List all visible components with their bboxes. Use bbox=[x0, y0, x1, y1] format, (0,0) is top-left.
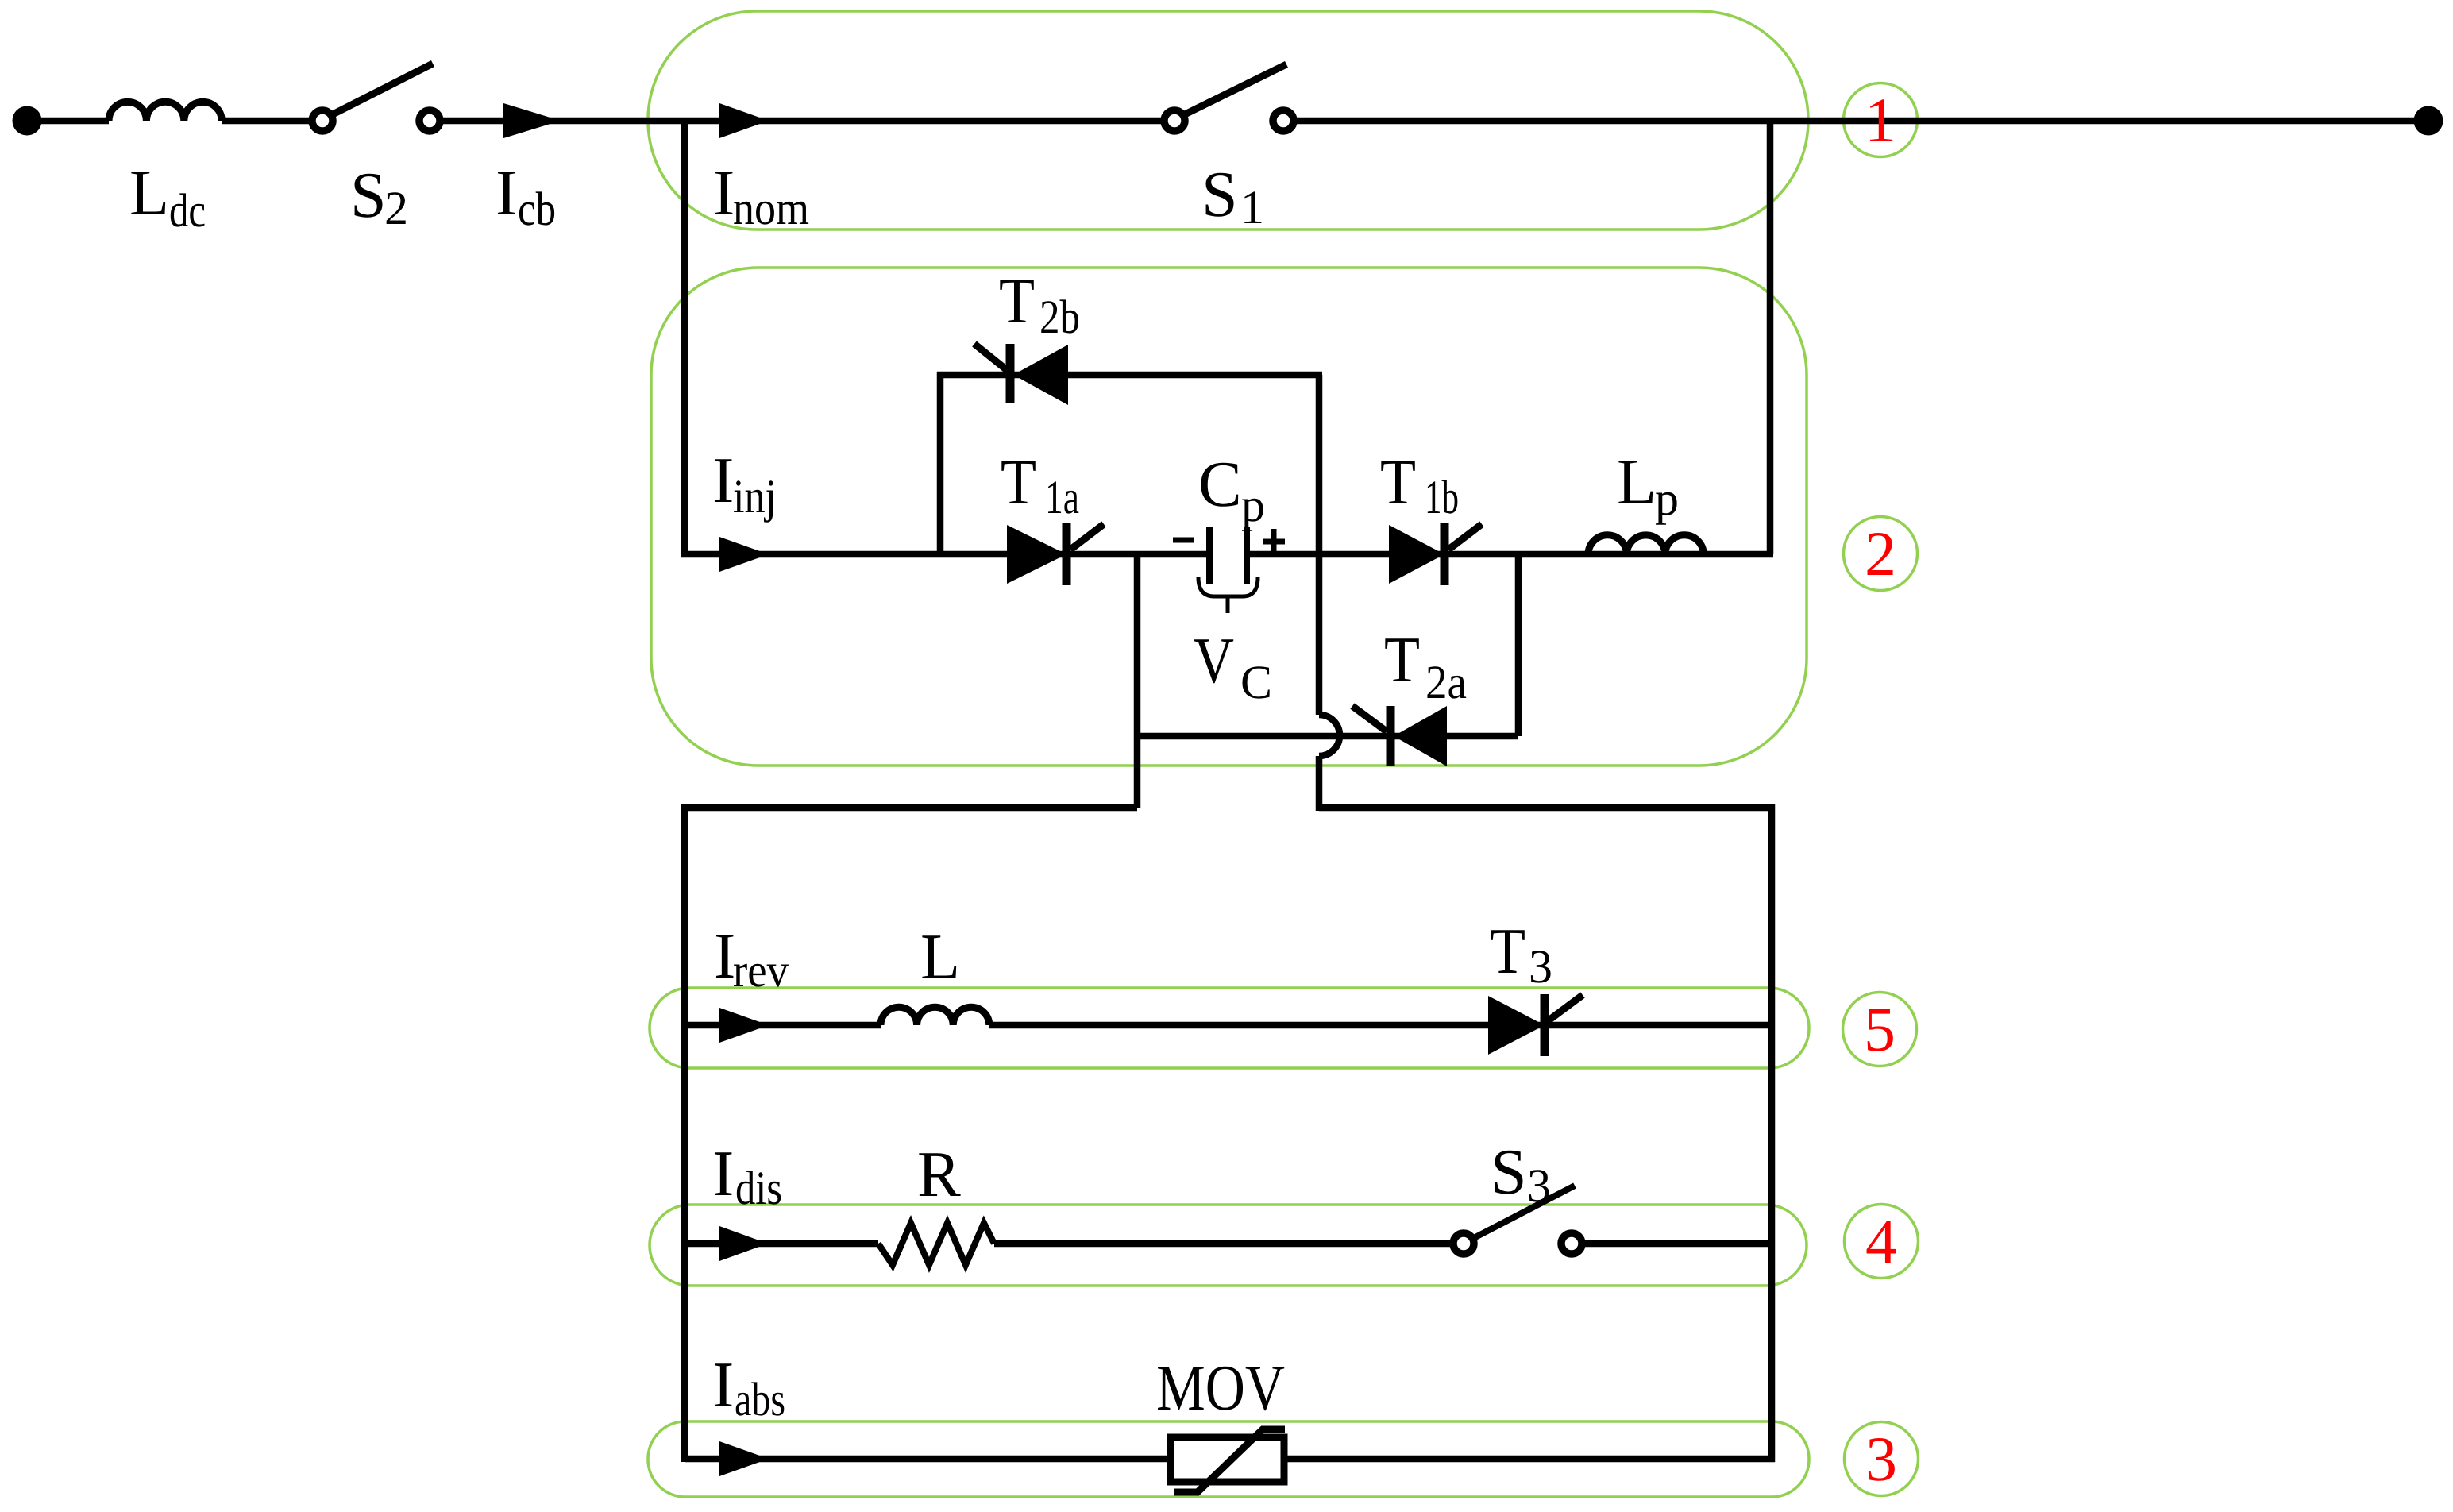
wire node vertical upper at 1661 bbox=[1316, 375, 1323, 715]
annotation circle 3 bbox=[1845, 1422, 1919, 1496]
label L bbox=[920, 920, 960, 993]
label VC bbox=[1194, 624, 1272, 708]
wire box right vertical bbox=[1768, 804, 1776, 1462]
wire T2b loop top bbox=[937, 372, 1322, 379]
wire from Ldc to S2 bbox=[222, 118, 313, 125]
svg-text:S: S bbox=[350, 159, 387, 231]
wire node vertical lower at 1661 bbox=[1316, 756, 1323, 811]
svg-text:rev: rev bbox=[733, 944, 789, 997]
svg-text:I: I bbox=[712, 1348, 734, 1421]
current arrow Inom bbox=[719, 103, 769, 138]
annotation region outline 1 bbox=[648, 11, 1808, 229]
wire branch 4 bbox=[685, 1240, 1772, 1248]
wire top left segment bbox=[27, 118, 109, 125]
wire from S1 to right terminal bbox=[1293, 118, 2428, 125]
svg-text:V: V bbox=[1194, 624, 1234, 696]
label Iabs bbox=[712, 1348, 785, 1425]
label S3 bbox=[1491, 1136, 1551, 1212]
current arrow Iinj bbox=[719, 537, 769, 572]
inductor Lp bbox=[1588, 535, 1703, 554]
annotation circle 2 bbox=[1844, 517, 1918, 591]
switch S2 bbox=[312, 64, 440, 131]
current arrow Irev bbox=[719, 1008, 769, 1043]
svg-text:I: I bbox=[712, 1137, 734, 1209]
annotation region outline 2 bbox=[651, 268, 1807, 766]
svg-text:T: T bbox=[1380, 445, 1416, 518]
svg-text:L: L bbox=[129, 156, 169, 229]
label Ldc bbox=[129, 156, 206, 237]
annotation circle 5 bbox=[1843, 993, 1917, 1066]
current arrow Idis bbox=[719, 1226, 768, 1261]
annotation circle 4 bbox=[1845, 1205, 1919, 1279]
svg-text:1: 1 bbox=[1865, 86, 1896, 156]
inductor L bbox=[881, 1007, 989, 1025]
svg-text:1a: 1a bbox=[1045, 471, 1079, 523]
svg-text:T: T bbox=[1384, 623, 1420, 696]
resistor R bbox=[878, 1223, 994, 1265]
svg-text:cb: cb bbox=[518, 183, 556, 235]
wire branch 3 left bbox=[685, 1456, 1171, 1463]
current arrow Icb bbox=[503, 103, 561, 138]
label MOV bbox=[1156, 1352, 1285, 1424]
svg-text:T: T bbox=[999, 264, 1035, 337]
wire hop over T2a branch bbox=[1319, 715, 1340, 756]
wire from S2 to S1 bbox=[439, 118, 1165, 125]
wire box left vertical bbox=[681, 804, 688, 1462]
annotation circle 1 bbox=[1844, 83, 1918, 157]
label S1 bbox=[1201, 158, 1264, 233]
label S2 bbox=[350, 159, 408, 234]
label Irev bbox=[714, 920, 789, 997]
thyristor T3 bbox=[1488, 994, 1583, 1056]
svg-text:MOV: MOV bbox=[1156, 1352, 1285, 1424]
thyristor T2b bbox=[974, 344, 1068, 405]
wire T2a right vertical bbox=[1515, 551, 1522, 736]
svg-text:C: C bbox=[1198, 448, 1242, 520]
svg-text:S: S bbox=[1201, 158, 1238, 230]
label Idis bbox=[712, 1137, 782, 1214]
capacitor Cp bbox=[1173, 526, 1285, 613]
svg-text:I: I bbox=[496, 156, 517, 229]
svg-text:I: I bbox=[712, 444, 734, 516]
svg-text:R: R bbox=[917, 1138, 961, 1210]
svg-text:p: p bbox=[1241, 479, 1265, 531]
svg-text:dc: dc bbox=[169, 184, 206, 237]
svg-text:1b: 1b bbox=[1425, 471, 1459, 523]
wire middle branch right of Cp bbox=[1247, 551, 1773, 558]
label Lp bbox=[1617, 445, 1679, 525]
svg-text:4: 4 bbox=[1865, 1207, 1897, 1277]
terminal dot left bbox=[13, 106, 42, 136]
svg-text:dis: dis bbox=[735, 1162, 782, 1214]
svg-text:2b: 2b bbox=[1039, 291, 1080, 343]
thyristor T1b bbox=[1389, 523, 1482, 585]
label Icb bbox=[496, 156, 556, 235]
inductor Ldc bbox=[109, 102, 222, 121]
svg-text:2a: 2a bbox=[1425, 656, 1467, 708]
svg-text:inj: inj bbox=[733, 470, 777, 523]
wire T2a branch bbox=[1134, 733, 1518, 740]
annotation region outline 5 bbox=[650, 988, 1809, 1068]
label Cp bbox=[1198, 448, 1265, 531]
wire middle branch left of Cp bbox=[681, 551, 1209, 558]
label R bbox=[917, 1138, 961, 1210]
svg-text:T: T bbox=[1490, 915, 1525, 987]
wire left vertical drop bbox=[681, 118, 688, 557]
svg-text:5: 5 bbox=[1864, 995, 1896, 1065]
svg-text:L: L bbox=[920, 920, 960, 993]
svg-text:abs: abs bbox=[735, 1373, 785, 1425]
wire box top edge left bbox=[681, 804, 1137, 812]
svg-text:S: S bbox=[1491, 1136, 1527, 1208]
thyristor T2a bbox=[1352, 706, 1447, 766]
wire box top edge right bbox=[1319, 804, 1775, 812]
label T1a bbox=[1001, 445, 1079, 523]
svg-text:nom: nom bbox=[733, 182, 809, 234]
annotation region outline 4 bbox=[650, 1205, 1807, 1286]
svg-text:3: 3 bbox=[1865, 1425, 1897, 1495]
label Iinj bbox=[712, 444, 777, 523]
svg-text:2: 2 bbox=[1865, 519, 1896, 589]
svg-text:1: 1 bbox=[1240, 181, 1264, 233]
current arrow Iabs bbox=[719, 1441, 769, 1476]
terminal dot right bbox=[2414, 106, 2443, 136]
annotation region outline 3 bbox=[648, 1421, 1809, 1497]
wire branch 5 bbox=[685, 1022, 1772, 1029]
switch S1 bbox=[1164, 64, 1294, 131]
label T3 bbox=[1490, 915, 1552, 993]
svg-text:p: p bbox=[1655, 472, 1679, 525]
label Inom bbox=[713, 156, 809, 234]
switch S3 bbox=[1453, 1186, 1582, 1254]
thyristor T1a bbox=[1007, 523, 1104, 585]
wire T2b loop left vertical bbox=[937, 372, 944, 554]
svg-text:C: C bbox=[1240, 656, 1272, 708]
svg-text:T: T bbox=[1001, 445, 1036, 518]
wire right vertical drop bbox=[1767, 118, 1774, 554]
svg-text:I: I bbox=[713, 156, 735, 229]
svg-text:2: 2 bbox=[384, 182, 408, 234]
svg-text:3: 3 bbox=[1527, 1159, 1551, 1212]
label T2a bbox=[1384, 623, 1467, 708]
wire node vertical at capacitor left bbox=[1134, 554, 1141, 808]
label T1b bbox=[1380, 445, 1459, 523]
varistor MOV bbox=[1171, 1429, 1285, 1492]
svg-text:L: L bbox=[1617, 445, 1657, 518]
wire branch 3 right bbox=[1284, 1456, 1775, 1463]
label T2b bbox=[999, 264, 1080, 343]
svg-text:3: 3 bbox=[1529, 940, 1552, 993]
